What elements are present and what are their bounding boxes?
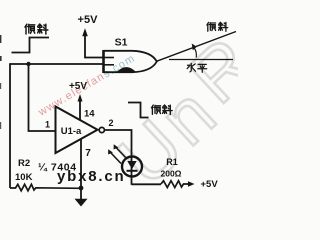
waveform rising step (tilt annotation) — [12, 38, 50, 53]
svg-text:S1: S1 — [115, 37, 128, 49]
label horizontal — [187, 63, 207, 72]
wire pin7 to ground — [80, 139, 82, 189]
svg-text:10K: 10K — [15, 172, 33, 183]
watermark big gray letters — [102, 22, 269, 201]
watermark red elecfans — [36, 52, 138, 119]
scan edge marks — [0, 35, 1, 43]
+5V arrow top — [82, 28, 88, 36]
svg-text:ybx8.cn: ybx8.cn — [57, 168, 125, 185]
resistor R1 zigzag — [161, 181, 188, 188]
resistor R2 zigzag — [10, 184, 81, 191]
wire output pin2 — [104, 130, 131, 157]
tilt axis line — [157, 32, 237, 62]
svg-text:R1: R1 — [166, 157, 178, 167]
svg-text:1: 1 — [45, 120, 50, 130]
switch S1 mercury capsule — [104, 50, 157, 73]
wire top bus — [10, 63, 104, 65]
svg-text:+5V: +5V — [69, 81, 87, 92]
wire LED to R1 — [132, 183, 162, 185]
label tilt (mid-right) — [151, 105, 172, 114]
wire left vertical — [9, 63, 11, 188]
ground junction dot — [79, 186, 84, 191]
svg-text:U1-a: U1-a — [61, 126, 82, 137]
label tilt (top-right) — [207, 22, 228, 31]
node junction dot — [26, 62, 30, 66]
label tilt (top-left) — [25, 24, 48, 34]
svg-text:+5V: +5V — [201, 179, 219, 190]
+5V arrow mid (pin 14 supply) — [78, 94, 83, 102]
svg-text:200Ω: 200Ω — [161, 169, 182, 179]
svg-text:14: 14 — [84, 109, 95, 120]
output bubble — [99, 127, 104, 132]
svg-text:7: 7 — [85, 148, 91, 159]
LED emission arrows — [108, 144, 126, 163]
svg-text:2: 2 — [108, 118, 113, 128]
horizontal reference line — [169, 59, 233, 61]
wire mid vertical to U1 input — [29, 64, 56, 131]
arrow to +5V right — [188, 181, 195, 186]
LED lamp — [122, 156, 142, 185]
wire +5V to S1 upper contact — [85, 34, 104, 58]
op-amp U1-a inverter triangle — [56, 107, 98, 154]
wire pin14 — [79, 99, 81, 121]
svg-text:R2: R2 — [18, 158, 30, 169]
mercury blob — [117, 67, 136, 72]
waveform falling step (tilt annotation right) — [128, 103, 149, 118]
angle arc arrow — [195, 49, 197, 58]
svg-text:+5V: +5V — [78, 14, 99, 26]
ground — [75, 188, 88, 207]
